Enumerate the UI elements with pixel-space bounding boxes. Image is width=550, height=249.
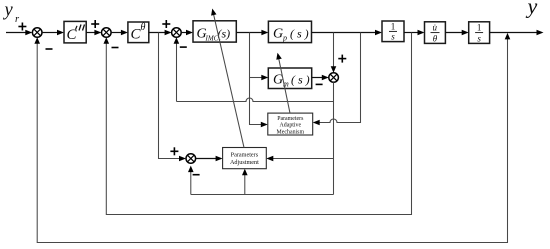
- wire S5 to Parameter Adjustment: [196, 156, 223, 162]
- wire C theta to summer S3 with tap node: [149, 30, 172, 36]
- svg-text:y: y: [526, 0, 538, 19]
- summing junction S4 model error: [329, 73, 339, 83]
- wire error e down from S4: [333, 82, 335, 194]
- block Parameters Adjustment: [223, 148, 267, 169]
- wire inner feedback loop after 1/s to S2: [104, 33, 412, 215]
- block G_p(s) plant: [268, 21, 311, 42]
- svg-text:Parameters: Parameters: [277, 116, 304, 122]
- svg-text:θ: θ: [141, 22, 146, 33]
- svg-text:Mechanism: Mechanism: [277, 129, 305, 135]
- minus sign at S5: [193, 174, 200, 176]
- block C theta controller: [128, 22, 149, 43]
- wire y tap down to PAM right input with hop: [313, 33, 361, 126]
- svg-text:u̇: u̇: [432, 23, 437, 33]
- wire input yr to summer S1: [6, 30, 32, 36]
- wire S2 to C theta: [111, 30, 128, 36]
- wire udot/theta to second 1/s: [445, 30, 468, 36]
- svg-text:( s ): ( s ): [291, 73, 310, 87]
- block udot over theta gain: [425, 22, 446, 44]
- wire G_IMC to G_p with tap: [236, 30, 268, 36]
- block integrator 1/s first: [382, 21, 404, 42]
- wire tap after G_p down to summer S4: [331, 33, 337, 73]
- svg-text:1: 1: [391, 22, 396, 32]
- minus sign at S4 input: [316, 83, 323, 85]
- plus sign at S3: [162, 20, 170, 28]
- plus sign at S4: [338, 55, 346, 63]
- wire S1 to C''': [42, 30, 64, 36]
- plus sign at S1: [18, 23, 26, 31]
- wire adaptation diagonal PA to G_IMC: [211, 9, 244, 148]
- wire branch into G_m input: [250, 75, 269, 81]
- node yr input label: [3, 1, 21, 26]
- minus sign at S1 feedback: [46, 48, 53, 50]
- wire error e into Parameter Adjustment right input: [266, 156, 333, 162]
- svg-text:s: s: [477, 34, 481, 44]
- wire G_m output to summer S4: [312, 75, 329, 81]
- wire C''' to summer S2: [86, 30, 101, 36]
- plus sign at S5: [170, 147, 178, 155]
- wire error e up into Parameter Adjustment bottom: [242, 169, 248, 195]
- svg-text:Adaptive: Adaptive: [280, 123, 302, 129]
- plus sign at S2: [91, 20, 99, 28]
- wire error e up into S3: [174, 37, 180, 101]
- svg-text:θ: θ: [433, 34, 438, 44]
- summing junction S1: [32, 28, 42, 38]
- wire error e horizontal with hop over u-tap: [177, 98, 334, 101]
- svg-text:Parameters: Parameters: [231, 151, 259, 158]
- summing junction S2: [102, 28, 112, 38]
- block integrator 1/s second: [469, 22, 490, 44]
- block G_IMC(s): [193, 21, 236, 43]
- svg-text:y: y: [3, 1, 14, 21]
- minus sign at S3 feedback: [180, 46, 187, 48]
- svg-text:( s ): ( s ): [290, 27, 309, 41]
- wire tap on G_IMC output down to G_m and PAM: [250, 33, 268, 128]
- wire u tap down to S5 plus input: [159, 33, 187, 162]
- svg-text:1: 1: [477, 23, 482, 33]
- svg-text:p: p: [282, 34, 287, 43]
- wire adaptation diagonal PAM to G_m: [276, 53, 290, 113]
- block Parameters Adaptive Mechanism: [268, 113, 313, 135]
- svg-text:G: G: [273, 27, 283, 42]
- wire error e up into S5 minus: [188, 166, 194, 195]
- block G_m(s) internal model: [268, 68, 311, 89]
- summing junction S5: [186, 154, 196, 164]
- svg-text:Adjustment: Adjustment: [230, 159, 259, 166]
- arrowhead up into output line at y branch: [505, 33, 511, 40]
- wire S3 to G_IMC: [181, 30, 193, 36]
- minus sign at S2 feedback: [112, 47, 119, 49]
- summing junction S3: [172, 28, 182, 38]
- wire G_p to integrator 1/s: [312, 30, 383, 36]
- wire 1/s to udot/theta with tap: [404, 30, 425, 36]
- block C''' controller: [64, 21, 86, 43]
- wire outer feedback loop from y to S1: [34, 35, 507, 243]
- svg-text:s: s: [391, 32, 395, 42]
- wire output to y: [490, 30, 544, 36]
- wire error e bottom run: [191, 194, 334, 196]
